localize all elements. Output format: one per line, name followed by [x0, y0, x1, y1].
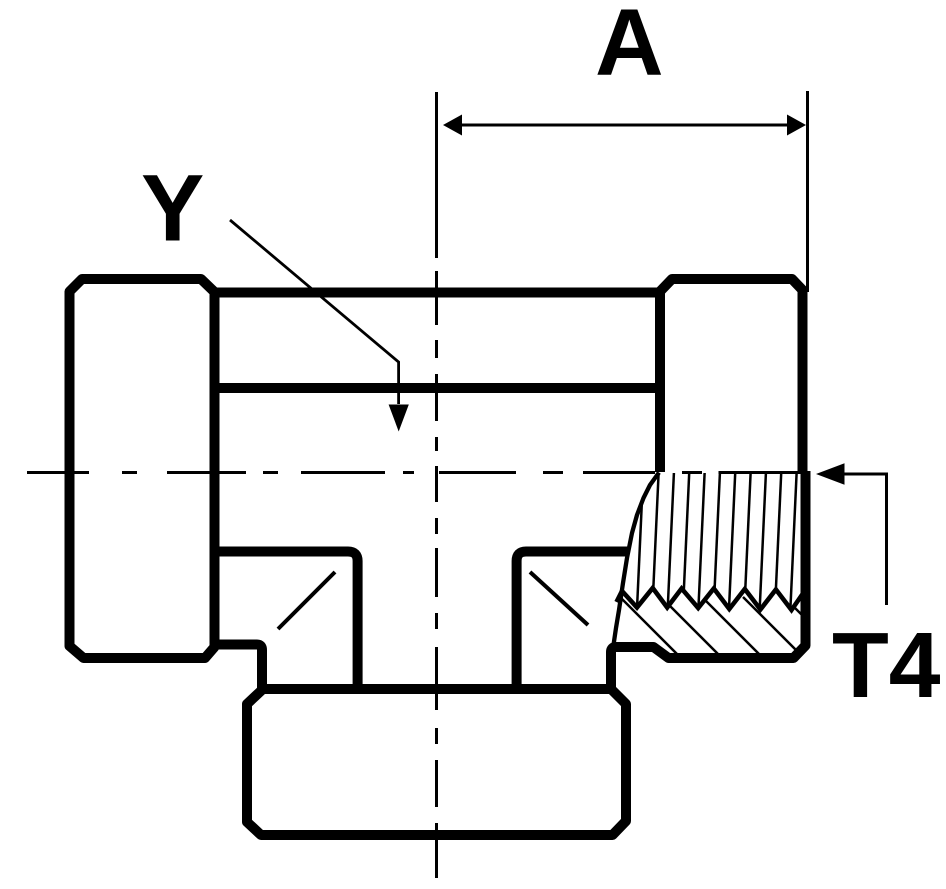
svg-text:Y: Y — [141, 156, 204, 262]
svg-text:T4: T4 — [832, 613, 941, 717]
svg-text:A: A — [595, 0, 664, 96]
